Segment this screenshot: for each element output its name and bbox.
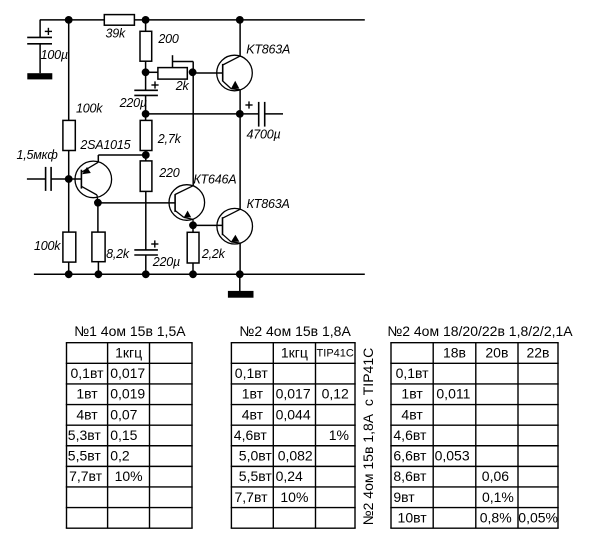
svg-text:22в: 22в [526,345,549,361]
table 2 grid [231,342,356,344]
svg-text:TIP41C: TIP41C [317,347,354,359]
node: 2SA1015 collector [94,199,102,207]
svg-text:7,7вт: 7,7вт [69,468,103,484]
svg-text:0,06: 0,06 [482,468,509,484]
svg-text:10вт: 10вт [398,509,428,525]
svg-text:0,07: 0,07 [110,406,137,422]
node: 220µ / 2,7k / feedback junction [142,110,150,118]
svg-text:1кгц: 1кгц [281,345,308,361]
svg-text:2k: 2k [175,79,190,93]
svg-text:0,1%: 0,1% [482,489,514,505]
svg-text:0,1вт: 0,1вт [235,365,269,381]
svg-text:1кгц: 1кгц [115,345,142,361]
svg-text:220µ: 220µ [119,96,147,110]
ground (output) [228,291,254,298]
wire: 2SA1015 emitter up [97,155,99,162]
svg-text:5,5вт: 5,5вт [239,468,273,484]
node: KT646A emitter / 2,2k / KT863A base [189,221,197,229]
wire: emitter to bottom rail [239,243,241,274]
resistor 39k (rail series) [104,15,134,26]
svg-text:0,011: 0,011 [436,386,470,402]
resistor 200 [140,31,152,61]
svg-text:200: 200 [157,32,179,46]
svg-text:0,15: 0,15 [110,427,137,443]
wire [97,203,99,232]
resistor 8,2k [92,232,105,262]
resistor 100k (upper bias) [63,120,75,150]
wire [68,20,70,121]
svg-text:10%: 10% [115,468,143,484]
svg-text:0,044: 0,044 [276,406,311,422]
svg-text:1%: 1% [329,427,349,443]
svg-text:100k: 100k [76,101,103,115]
svg-text:0,019: 0,019 [110,386,145,402]
resistor 100k (lower bias) [63,232,76,262]
wire: feedback link to output node [146,113,240,115]
node: rail / bias divider junction [65,16,73,24]
transistor KT646A (driver) [169,185,205,221]
svg-text:1вт: 1вт [401,386,423,402]
svg-text:№1 4ом 15в 1,5А: №1 4ом 15в 1,5А [74,323,186,339]
svg-text:18в: 18в [443,345,466,361]
wire [146,71,158,73]
node: 2,7k / 220 / emitter junction [142,151,150,159]
svg-text:1вт: 1вт [76,386,98,402]
resistor 220 [140,161,152,192]
svg-text:№2 4ом 15в 1,8А с TIP41C: №2 4ом 15в 1,8А с TIP41C [360,348,376,526]
svg-text:0,017: 0,017 [110,365,145,381]
capacitor 1,5мкф (input coupling) [45,167,47,191]
table 1 grid [66,342,193,344]
wire: bottom rail [34,273,365,275]
svg-text:8,2k: 8,2k [106,247,130,261]
svg-text:9вт: 9вт [393,489,415,505]
transistor 2SA1015 (PNP input) [75,161,112,198]
svg-text:1,5мкф: 1,5мкф [17,148,59,162]
svg-text:0,2: 0,2 [110,448,130,464]
transistor KT863A (top output) [217,55,253,91]
node [65,270,73,278]
svg-text:220: 220 [158,166,180,180]
wire [145,114,147,121]
svg-text:220µ: 220µ [152,255,180,269]
svg-text:2,7k: 2,7k [157,132,182,146]
potentiometer 2k [158,68,187,80]
node: input / base junction [65,175,73,183]
wire [239,20,241,56]
svg-text:8,6вт: 8,6вт [393,468,427,484]
svg-text:100µ: 100µ [41,48,68,62]
wire [68,151,70,180]
capacitor 220µ (lower) [134,249,158,251]
wire [68,262,70,274]
node [236,270,244,278]
svg-text:4вт: 4вт [242,406,264,422]
svg-text:№2 4ом 15в 1,8А: №2 4ом 15в 1,8А [239,323,351,339]
svg-text:0,8%: 0,8% [480,509,512,525]
wire [97,262,99,275]
transistor KT863A (bottom output) [217,208,253,244]
svg-text:4вт: 4вт [401,406,423,422]
wire [145,61,147,72]
svg-text:39k: 39k [106,27,127,41]
wire: top positive supply rail [40,19,365,21]
node: collector on rail [236,16,244,24]
svg-text:4вт: 4вт [76,406,98,422]
svg-text:0,017: 0,017 [276,386,311,402]
wire [192,263,194,274]
wire [192,225,194,232]
svg-text:0,082: 0,082 [278,448,313,464]
capacitor 4700µ (output) [240,113,259,115]
node [95,270,103,278]
svg-text:5,3вт: 5,3вт [68,427,102,443]
wire: base of top KT863A [193,72,223,74]
wire: to bottom KT863A base [193,224,223,226]
node [189,270,197,278]
svg-text:0,24: 0,24 [276,468,303,484]
svg-text:KT863A: KT863A [246,43,290,57]
svg-text:0,1вт: 0,1вт [396,365,430,381]
svg-text:0,12: 0,12 [322,386,349,402]
svg-text:4,6вт: 4,6вт [393,427,427,443]
svg-text:10%: 10% [280,489,308,505]
svg-text:1вт: 1вт [242,386,264,402]
wire: 220 to lower 220µ (crosses base wire) [145,191,147,250]
svg-text:5,5вт: 5,5вт [68,448,102,464]
svg-text:КТ863А: КТ863А [247,197,290,211]
svg-text:КТ646А: КТ646А [193,173,236,187]
wire [145,20,147,31]
wire: pot junction down to KT646A collector [192,72,194,185]
capacitor C 100µ (supply filter) [39,20,41,38]
wire: output node down to collector [239,114,241,209]
capacitor 220µ (upper) [145,72,147,90]
wire: emitter to output node [239,90,241,114]
svg-text:100k: 100k [34,239,61,253]
svg-text:0,053: 0,053 [435,448,470,464]
node [142,270,150,278]
svg-text:4700µ: 4700µ [247,127,281,141]
svg-text:0,1вт: 0,1вт [70,365,104,381]
svg-text:№2 4ом 18/20/22в 1,8/2/2,1А: №2 4ом 18/20/22в 1,8/2/2,1А [387,323,573,339]
svg-text:20в: 20в [485,345,508,361]
svg-text:2,2k: 2,2k [201,247,226,261]
wire: ground stub [239,274,241,291]
wire: input lead [27,178,46,180]
svg-text:2SA1015: 2SA1015 [79,138,130,152]
svg-text:0,05%: 0,05% [518,509,558,525]
node: 39k / 200 junction [142,16,150,24]
ground (supply filter) [27,73,52,79]
svg-text:7,7вт: 7,7вт [235,489,269,505]
resistor 2,2k [187,232,199,263]
node: pot wiper / KT863A base / KT646A collector [189,68,197,76]
node: output (emitters / 4700µ) [236,110,244,118]
wire: to KT646A base [98,202,175,204]
node: 200 / 2k pot / 220µ junction [142,68,150,76]
table 3 grid [390,342,558,344]
wire [68,179,70,232]
resistor 2,7k [140,120,152,150]
svg-text:4,6вт: 4,6вт [234,427,268,443]
wire: base of 2SA1015 [51,178,81,180]
svg-text:5,0вт: 5,0вт [239,448,273,464]
svg-text:6,6вт: 6,6вт [393,448,427,464]
